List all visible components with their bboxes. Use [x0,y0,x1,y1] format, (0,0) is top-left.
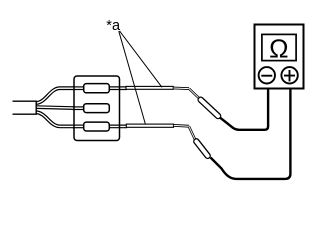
wire stub left row3 [73,125,86,129]
terminal T2 [84,104,110,113]
bottom probe lead to meter plus [211,83,291,179]
wire stub left row2 [73,106,86,110]
wire W3 bottom fan from cable to connector [36,112,75,126]
top probe needle [189,89,199,99]
wire W1 top fan from cable to connector [36,88,75,103]
wire stub right row1 [108,86,127,90]
top wire stripped end [174,87,190,90]
bottom wire stripped end [174,124,189,128]
wire stub left row1 [73,86,86,90]
bottom probe needle [189,126,195,140]
ohmmeter display [262,34,296,60]
ohmmeter body [255,25,304,89]
cable jacket (open left end) [12,102,37,114]
wire stub right row3 [108,125,127,129]
terminal T3 [84,122,110,131]
minus terminal [259,67,275,83]
top probe body [197,96,222,120]
connector body fill [74,76,120,141]
wire W2 middle fan from cable to connector [36,107,75,108]
top probe lead to meter minus [220,83,269,130]
terminal T1 [84,84,110,93]
leader line to top wire [120,31,162,87]
leader line to bottom wire [119,31,146,124]
top wire sleeve [126,86,173,89]
bottom wire sleeve [126,124,173,127]
plus terminal [281,67,297,83]
bottom probe body [193,138,212,160]
connector outline [74,76,120,141]
svg-text:Ω: Ω [269,33,288,63]
